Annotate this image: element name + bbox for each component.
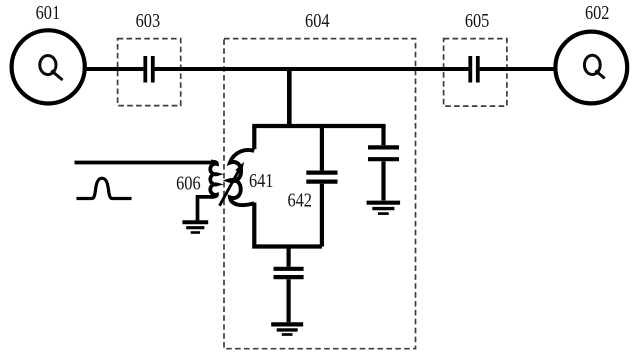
svg-text:642: 642	[287, 191, 312, 212]
svg-text:603: 603	[136, 11, 161, 32]
svg-text:602: 602	[585, 3, 610, 24]
svg-text:605: 605	[465, 11, 490, 32]
svg-text:641: 641	[249, 171, 274, 192]
svg-text:601: 601	[36, 3, 61, 24]
svg-text:606: 606	[176, 174, 201, 195]
svg-text:604: 604	[305, 11, 330, 32]
